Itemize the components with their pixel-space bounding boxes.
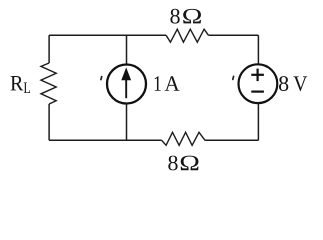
voltage source minus sign	[251, 90, 264, 92]
wire bottom-left segment	[49, 139, 162, 141]
current source I1 circle	[107, 65, 146, 104]
wire middle vertical upper	[126, 35, 128, 65]
label 1 A	[155, 76, 180, 91]
wire middle vertical lower	[126, 104, 128, 141]
label RL	[11, 76, 30, 93]
resistor RL zigzag	[41, 63, 56, 104]
voltage source plus sign	[251, 69, 264, 82]
stray tick left of voltage source	[232, 76, 235, 79]
label 8 V	[279, 76, 307, 91]
resistor top 8 ohm zigzag	[166, 29, 208, 42]
wire bottom-right segment	[205, 139, 258, 141]
wire right vertical upper	[257, 35, 259, 64]
voltage source V1 circle	[239, 64, 278, 103]
wire top-left segment	[49, 34, 166, 36]
wire right vertical lower	[257, 104, 259, 141]
current source arrow up	[121, 67, 131, 98]
resistor bottom 8 ohm zigzag	[162, 132, 205, 145]
wire left vertical upper	[48, 35, 50, 63]
wire left vertical lower	[48, 104, 50, 140]
wire top-right segment	[209, 34, 259, 36]
label 8 ohm top	[170, 9, 201, 24]
label 8 ohm bottom	[168, 156, 198, 171]
stray tick left of current source	[100, 77, 103, 80]
